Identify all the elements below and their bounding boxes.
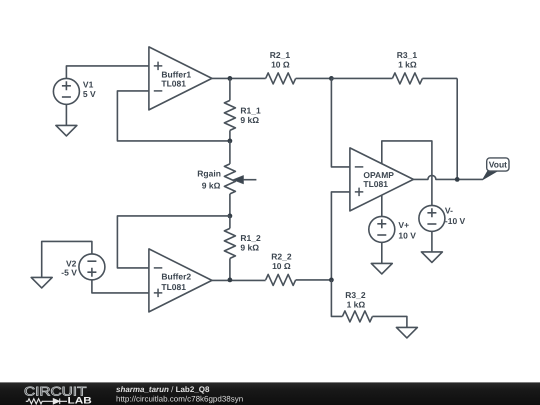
svg-text:R3_1: R3_1 [397, 50, 418, 60]
svg-text:-5 V: -5 V [61, 268, 77, 278]
svg-text:V1: V1 [83, 80, 94, 90]
op-amp OPAMP [350, 148, 414, 211]
wire OPAMP + input down to R2_2 junction [331, 192, 350, 280]
voltage source V+ [369, 216, 395, 242]
node output junction [455, 177, 460, 182]
voltage source V1 [53, 78, 79, 104]
svg-text:R1_1: R1_1 [240, 105, 261, 115]
op-amp Buffer1 [149, 47, 212, 110]
svg-text:R2_2: R2_2 [271, 251, 292, 261]
svg-text:V+: V+ [398, 220, 409, 230]
svg-text:5 V: 5 V [83, 89, 96, 99]
svg-text:TL081: TL081 [363, 179, 388, 189]
resistor R3_1 [331, 73, 457, 84]
ground below V+ [371, 242, 392, 274]
R1_2 value label [240, 233, 261, 253]
node Rgain/R1_2 junction [228, 214, 233, 219]
voltage source V- [419, 205, 445, 231]
svg-text:9 kΩ: 9 kΩ [202, 180, 221, 190]
svg-text:Rgain: Rgain [197, 168, 221, 178]
svg-text:1 kΩ: 1 kΩ [347, 299, 366, 309]
wire R3_1 right end down to output node [456, 78, 458, 179]
V- value label [445, 205, 466, 226]
wire Buffer1 output to R2_1 [212, 77, 266, 79]
V1 value label [83, 80, 96, 100]
V+ value label [398, 220, 416, 241]
ground for V2 [31, 277, 52, 288]
ground below V- [421, 231, 442, 263]
svg-text:Vout: Vout [489, 160, 507, 170]
wire V2 top to ground [42, 241, 92, 277]
wire Buffer2 feedback: R1_2 bottom node to - input [117, 216, 229, 268]
wire V1 top to Buffer1 + input [66, 66, 148, 79]
svg-text:R2_1: R2_1 [270, 50, 291, 60]
Buffer2 name label [161, 271, 191, 292]
voltage source V2 [79, 254, 105, 280]
node R1_1/Rgain junction [228, 139, 233, 144]
resistor R2_2 [266, 274, 332, 285]
svg-text:10 Ω: 10 Ω [271, 60, 290, 70]
OPAMP name label [363, 170, 394, 189]
node Buffer2 output junction [228, 278, 233, 283]
wire R2_1 junction down to OPAMP - input [331, 78, 350, 166]
R2_1 value label [270, 50, 291, 70]
wire Buffer1 feedback: output node to - input [117, 91, 229, 141]
op-amp Buffer2 [149, 249, 212, 312]
svg-text:10 V: 10 V [398, 230, 416, 240]
resistor R1_1 [224, 78, 235, 140]
R3_1 value label [397, 50, 418, 70]
svg-text:-10 V: -10 V [445, 216, 466, 226]
Vout label text [489, 160, 507, 170]
CircuitLab logo resistor-diode symbol [26, 399, 67, 405]
R2_2 value label [271, 251, 292, 271]
svg-text:LAB: LAB [68, 396, 92, 405]
svg-text:R3_2: R3_2 [345, 290, 366, 300]
wire OPAMP top supply pin to V- source (with hop over output) [382, 141, 432, 206]
node Buffer1 output junction [228, 76, 233, 81]
wire V2 bottom to Buffer2 + input [92, 279, 149, 293]
V2 value label [61, 259, 77, 278]
resistor R3_2 [331, 280, 407, 328]
R1_1 value label [240, 105, 261, 125]
resistor R2_1 [266, 73, 332, 84]
svg-text:R1_2: R1_2 [240, 233, 261, 243]
svg-text:TL081: TL081 [161, 282, 186, 292]
svg-text:http://circuitlab.com/c78k6gpd: http://circuitlab.com/c78k6gpd38syn [116, 395, 243, 404]
wire OPAMP output with hop [413, 175, 483, 179]
wire Buffer2 output to R2_2 [212, 279, 266, 281]
svg-text:TL081: TL081 [161, 78, 186, 88]
R3_2 value label [345, 290, 366, 310]
node R2_2 junction [329, 278, 334, 283]
svg-text:V-: V- [445, 205, 453, 215]
resistor R1_2 [224, 216, 235, 280]
svg-text:9 kΩ: 9 kΩ [240, 242, 259, 252]
svg-text:sharma_tarun / Lab2_Q8: sharma_tarun / Lab2_Q8 [116, 385, 210, 394]
Rgain value label [197, 168, 221, 190]
svg-text:10 Ω: 10 Ω [272, 261, 291, 271]
node name flag Vout [483, 158, 509, 180]
node R2_1/R3_1 junction [329, 76, 334, 81]
svg-text:Buffer2: Buffer2 [161, 271, 191, 281]
ground for R3_2 [396, 327, 417, 338]
potentiometer Rgain [224, 141, 256, 216]
Buffer1 name label [161, 69, 191, 88]
wire OPAMP bottom supply pin to V+ source [381, 195, 383, 217]
ground below V1 [56, 104, 77, 136]
svg-text:9 kΩ: 9 kΩ [240, 115, 259, 125]
svg-text:1 kΩ: 1 kΩ [398, 60, 417, 70]
